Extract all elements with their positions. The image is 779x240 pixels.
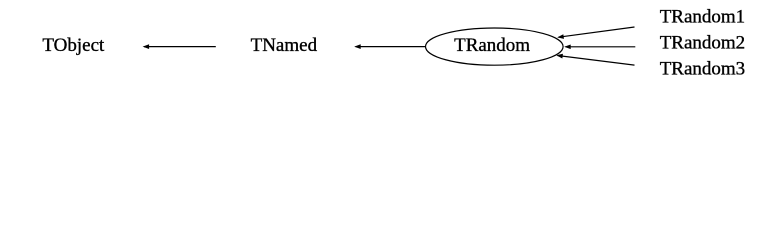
svg-text:TNamed: TNamed <box>251 35 318 56</box>
inheritance arrow TRandom to TNamed <box>354 44 425 49</box>
class label TRandom3 <box>660 59 746 80</box>
class label TNamed <box>251 35 318 56</box>
class label TObject <box>42 35 105 56</box>
inheritance arrow TNamed to TObject <box>143 44 216 49</box>
svg-text:TRandom1: TRandom1 <box>660 7 746 28</box>
inheritance arrow TRandom3 to TRandom <box>556 54 634 65</box>
svg-text:TRandom2: TRandom2 <box>660 33 746 54</box>
class label TRandom1 <box>660 7 746 28</box>
ellipse node TRandom <box>426 28 564 65</box>
svg-text:TObject: TObject <box>42 35 105 56</box>
inheritance arrow TRandom2 to TRandom <box>564 44 635 49</box>
svg-text:TRandom3: TRandom3 <box>660 59 746 80</box>
svg-text:TRandom: TRandom <box>454 35 530 56</box>
inheritance arrow TRandom1 to TRandom <box>557 27 634 39</box>
class label TRandom2 <box>660 33 746 54</box>
